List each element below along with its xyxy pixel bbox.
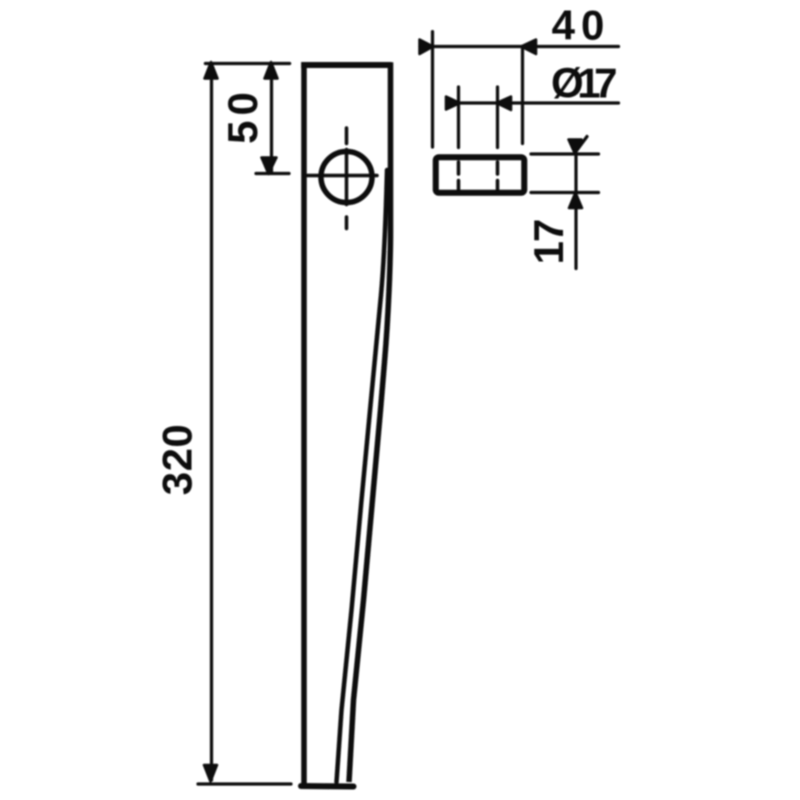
hole circle — [321, 152, 372, 203]
hole-center extension tick — [256, 172, 289, 175]
bottom extension line (left of part) — [198, 782, 291, 785]
17 top extension line — [531, 152, 599, 155]
hole vertical centerline (dash-dot) — [345, 128, 349, 229]
tine bottom edge — [301, 783, 354, 790]
svg-text:Ø17: Ø17 — [551, 60, 616, 107]
arrow 40 right (points left at ext line 2) — [521, 40, 536, 55]
dia17 extension line A (solid above rect) — [457, 87, 460, 148]
17 bottom extension line — [531, 191, 599, 194]
arrow 17 top (points down at top ext) — [569, 140, 582, 155]
svg-text:40: 40 — [552, 2, 611, 49]
top view rectangle — [436, 157, 525, 193]
arrow dia17 left (points right at line A) — [446, 97, 460, 110]
arrow 50 top (up) — [265, 62, 278, 79]
hole dashed line B inside rect — [496, 162, 500, 190]
svg-text:320: 320 — [154, 424, 201, 496]
dia17 dimension line — [447, 101, 619, 104]
svg-text:50: 50 — [219, 87, 266, 144]
tine bevel edge line — [337, 170, 388, 782]
arrow 50 bottom (down) — [262, 158, 277, 175]
tine left edge + top edge + right tapered edge — [304, 65, 391, 788]
40 dimension line — [420, 45, 619, 48]
arrow dia17 right (points left at line B) — [497, 97, 512, 111]
arrow 17 bottom (points up at bottom ext) — [569, 193, 582, 209]
arrow 320 top (up) — [205, 62, 218, 79]
arrow 320 bottom (down) — [204, 765, 217, 782]
tine top edge overdraw for weight — [301, 62, 391, 68]
top extension line (left of part) — [205, 62, 289, 65]
dim line 50 — [270, 64, 273, 173]
arrow 40 left (points right at ext line 1) — [420, 40, 434, 55]
40 extension line 2 — [521, 47, 524, 144]
dim line 320 — [210, 64, 213, 781]
40 extension line 1 — [431, 32, 434, 147]
svg-text:17: 17 — [525, 220, 572, 265]
hole horizontal centerline — [305, 174, 378, 178]
dia17 extension line B (solid above rect) — [496, 87, 499, 148]
17 dimension line — [574, 140, 577, 269]
hole dashed line A inside rect — [457, 162, 461, 190]
17 arrow overshoot tick — [576, 137, 588, 153]
